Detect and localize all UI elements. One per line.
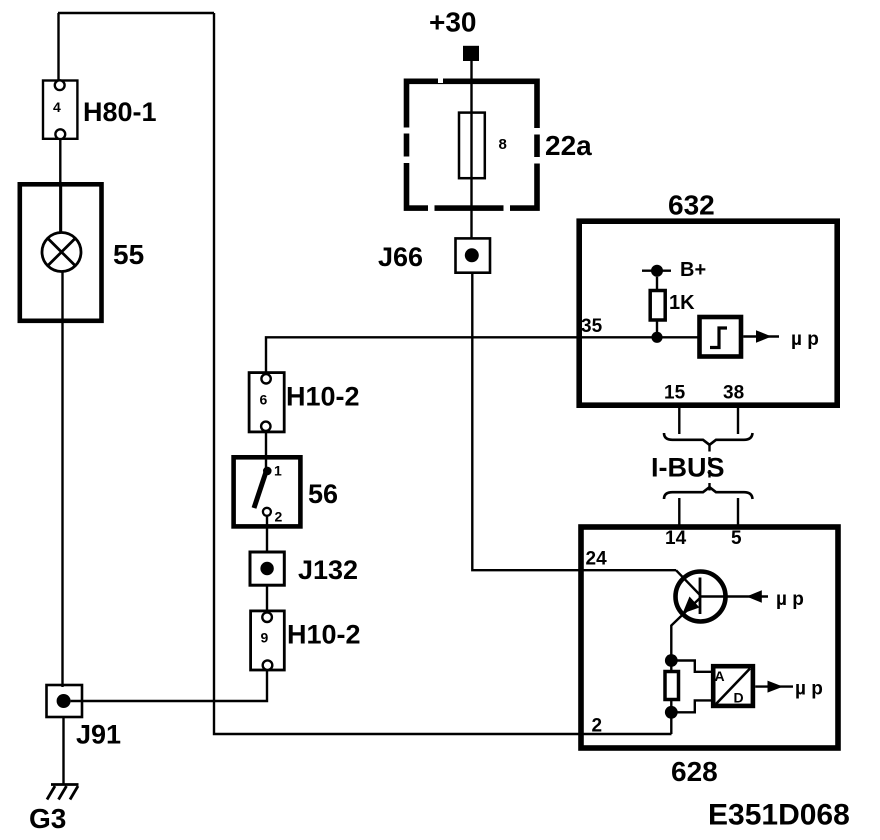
svg-text:15: 15 (664, 383, 686, 404)
wire through fuse (470, 81, 472, 238)
lamp 55 box (20, 184, 102, 320)
svg-text:2: 2 (592, 716, 603, 737)
svg-text:I-BUS: I-BUS (651, 453, 725, 483)
svg-text:38: 38 (723, 383, 744, 404)
wire upper node to A/D input (677, 661, 712, 672)
ECU box 628 (581, 527, 838, 748)
svg-text:22a: 22a (545, 130, 592, 161)
I-BUS lower brace (664, 487, 753, 499)
wire J132 to H10-2(9) (266, 585, 268, 614)
transistor collector wire (700, 595, 768, 597)
svg-text:E351D068: E351D068 (708, 799, 850, 832)
switch lever (254, 473, 266, 509)
connector J132 (250, 552, 284, 585)
svg-text:H10-2: H10-2 (286, 382, 360, 412)
ECU box 632 (579, 221, 837, 405)
connector J91 (47, 685, 83, 717)
svg-text:628: 628 (671, 756, 718, 787)
wire lower node to A/D input (677, 700, 712, 712)
arrowhead A/D to microprocessor (768, 681, 784, 693)
wire A/D output (755, 685, 793, 687)
wire resistor to lower node (670, 700, 672, 713)
wire J91 right to H10-2 pin 9 chain (71, 670, 267, 701)
svg-text:1: 1 (274, 463, 282, 479)
svg-text:J66: J66 (378, 242, 423, 272)
transistor Q1 (676, 572, 726, 622)
pin 14 lead (678, 498, 680, 527)
svg-text:6: 6 (260, 392, 268, 408)
svg-text:H10-2: H10-2 (287, 620, 361, 650)
wire H10-2(6) to switch 56 (265, 432, 267, 469)
svg-text:µ p: µ p (791, 329, 819, 350)
svg-text:5: 5 (731, 528, 742, 549)
ground G3 symbol (47, 785, 79, 800)
arrowhead to microprocessor (756, 330, 772, 343)
connector J66 (456, 238, 491, 272)
wire +30 square to fuse box (470, 61, 472, 80)
I-BUS dashed link (708, 444, 710, 491)
node B+ (642, 265, 671, 277)
switch pin 1 dot (263, 467, 272, 476)
connector H10-2 (pin 9) (251, 611, 285, 670)
junction node upper (emitter/resistor) (665, 654, 678, 667)
switch pin 2 contact (263, 508, 271, 516)
svg-text:D: D (734, 690, 744, 706)
connector H80-1 (43, 80, 77, 139)
svg-text:J91: J91 (76, 720, 121, 750)
pin 5 lead (737, 498, 739, 527)
svg-text:4: 4 (53, 99, 61, 115)
svg-text:G3: G3 (29, 803, 66, 834)
wire pin 24 to transistor base (676, 570, 700, 595)
wire J66 down to pin 24 of 628 (472, 273, 676, 571)
comparator U (schmitt) box (700, 317, 742, 357)
svg-text:H80-1: H80-1 (83, 97, 157, 127)
svg-text:632: 632 (668, 190, 715, 221)
svg-text:55: 55 (113, 239, 144, 270)
svg-text:1K: 1K (669, 292, 695, 314)
wire from top bus down to H80-1 (57, 13, 59, 81)
connector H10-2 (pin 6) (249, 373, 284, 432)
emitter arrowhead (683, 597, 700, 614)
schmitt step symbol (710, 328, 727, 348)
svg-text:J132: J132 (298, 555, 358, 585)
pin 15 lead (678, 405, 680, 434)
svg-text:B+: B+ (680, 259, 706, 281)
wire comparator output (743, 335, 779, 337)
svg-text:56: 56 (308, 479, 338, 509)
svg-text:24: 24 (586, 549, 608, 570)
lamp symbol (42, 233, 81, 272)
fuse F8 element (459, 113, 485, 179)
wire node to resistor (670, 655, 672, 672)
wire lamp down to J91 (61, 272, 63, 688)
svg-text:8: 8 (499, 136, 507, 153)
svg-text:9: 9 (261, 630, 269, 646)
svg-text:14: 14 (665, 528, 687, 549)
fuse holder box 22a (dashed) (400, 78, 544, 215)
pin 38 lead (737, 405, 739, 434)
resistor 1K (650, 291, 665, 321)
junction node lower (665, 706, 678, 719)
wire long vertical from top bus to pin 2 of 628 (214, 13, 672, 734)
svg-text:35: 35 (581, 316, 603, 337)
wire 35-line from corner to 632 (266, 337, 698, 373)
junction node on 35 line (651, 332, 662, 343)
svg-text:A: A (715, 668, 725, 684)
wire switch to J132 (266, 516, 268, 553)
svg-text:µ p: µ p (795, 679, 823, 700)
wire lower node to pin 2 (670, 712, 672, 734)
svg-text:+30: +30 (429, 7, 477, 38)
switch 56 box (234, 457, 301, 526)
wire J91 to ground (62, 717, 64, 784)
transistor emitter wire (671, 598, 700, 655)
arrowhead from microprocessor into transistor (747, 590, 762, 603)
node +30 terminal square (463, 46, 479, 61)
svg-text:µ p: µ p (776, 589, 804, 610)
wire top horizontal bus (58, 12, 214, 14)
A/D converter box (713, 666, 753, 706)
wire resistor to node (656, 320, 658, 337)
wire H80-1 to lamp 55 (59, 139, 61, 233)
wire inside lamp box top (60, 184, 62, 233)
I-BUS upper brace (664, 433, 753, 445)
wire B+ to resistor (656, 277, 658, 291)
resistor in 628 (665, 672, 679, 700)
svg-text:2: 2 (275, 509, 283, 525)
